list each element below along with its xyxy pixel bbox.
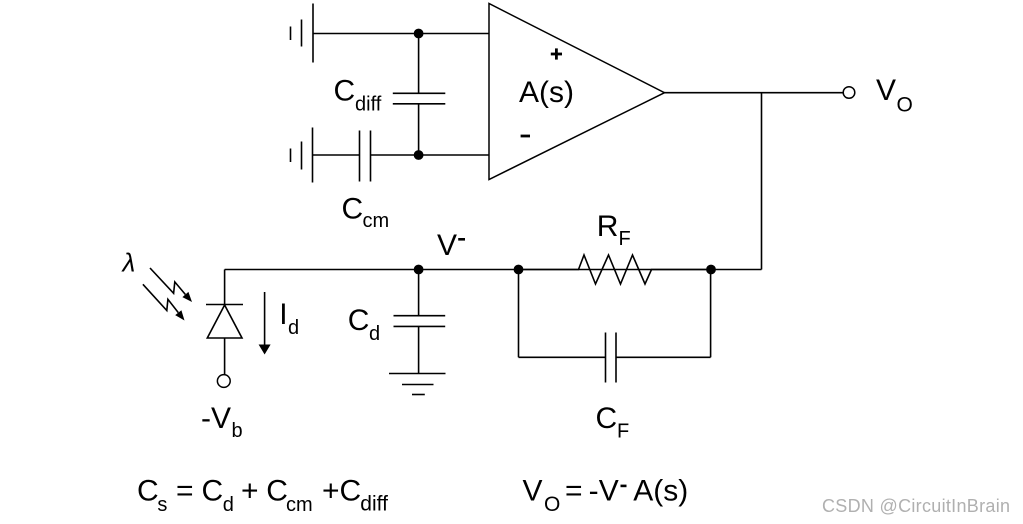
svg-text:=: = — [176, 475, 194, 508]
svg-text:C: C — [596, 402, 618, 435]
equation Cs = Cd + Ccm + Cdiff — [137, 475, 388, 517]
ground (below Cd) — [389, 374, 446, 395]
svg-text:V: V — [876, 74, 896, 107]
bias terminal circle — [217, 375, 230, 388]
svg-text:R: R — [597, 210, 619, 243]
wire: middle ground to Ccm — [313, 154, 360, 156]
wire: C_F loop left vertical — [518, 270, 520, 358]
wire: inverting input rail V- — [225, 269, 762, 271]
svg-text:+: + — [241, 475, 259, 508]
wire: top ground to op-amp + input — [313, 33, 489, 35]
svg-text:O: O — [897, 94, 913, 117]
wire: V- node down to Cd — [418, 270, 420, 316]
svg-text:diff: diff — [360, 493, 388, 516]
svg-text:A(s): A(s) — [633, 475, 688, 508]
op-amp U1 A(s) triangle — [489, 4, 665, 180]
node junction dot (bottom input) — [414, 150, 424, 160]
svg-text:I: I — [279, 298, 287, 331]
capacitor Cdiff — [393, 93, 446, 104]
node junction dot feedback right — [706, 265, 716, 275]
svg-text:s: s — [157, 494, 167, 516]
svg-text:C: C — [137, 475, 159, 508]
wire: photodiode top stub — [224, 270, 226, 305]
wire: op-amp output — [664, 92, 843, 94]
svg-text:cm: cm — [286, 494, 313, 516]
wire: C_F loop bottom left — [519, 356, 606, 358]
svg-text:C: C — [340, 475, 362, 508]
wire: Ccm to op-amp - input — [371, 154, 490, 156]
svg-text:d: d — [288, 317, 299, 339]
op-amp + input marker — [551, 48, 562, 59]
svg-text:d: d — [223, 494, 234, 516]
svg-text:A(s): A(s) — [519, 76, 574, 109]
node junction dot feedback left — [514, 265, 524, 275]
label V- superscript minus — [458, 238, 465, 241]
node junction dot (top input) — [414, 29, 424, 39]
svg-text:+: + — [322, 475, 340, 508]
svg-text:CSDN @CircuitInBrain: CSDN @CircuitInBrain — [822, 496, 1010, 516]
svg-text:V: V — [437, 229, 457, 262]
svg-text:C: C — [334, 75, 356, 108]
capacitor Ccm (series, vertical plates) — [360, 131, 371, 182]
op-amp - input marker — [521, 135, 530, 138]
output terminal circle — [843, 87, 855, 99]
wire: node down to Cdiff top plate — [418, 34, 420, 94]
svg-text:b: b — [232, 420, 243, 442]
svg-text:O: O — [544, 493, 560, 516]
svg-text:F: F — [619, 228, 631, 250]
svg-text:C: C — [202, 475, 224, 508]
svg-text:F: F — [617, 421, 629, 443]
photodiode D1 triangle — [207, 305, 242, 338]
svg-text:=: = — [565, 475, 583, 508]
svg-text:d: d — [369, 323, 380, 345]
photon arrow 2 — [143, 284, 185, 320]
svg-text:C: C — [342, 193, 364, 226]
capacitor Cd — [394, 316, 446, 327]
resistor RF — [519, 255, 712, 284]
svg-text:V: V — [523, 475, 543, 508]
svg-text:-V: -V — [201, 402, 231, 435]
svg-text:V: V — [599, 475, 619, 508]
wire: C_F loop bottom right — [616, 356, 711, 358]
wire: Cd down to ground — [418, 326, 420, 373]
svg-text:diff: diff — [355, 94, 382, 116]
current arrow Id — [259, 292, 271, 355]
wire: feedback branch vertical from output — [761, 93, 763, 270]
ground (top-left, rotated) — [291, 4, 314, 63]
photon arrow 1 — [150, 268, 192, 302]
svg-text:C: C — [348, 304, 370, 337]
wire: C_F loop right vertical — [710, 270, 712, 358]
node junction dot V- — [414, 265, 424, 275]
svg-text:λ: λ — [121, 248, 136, 278]
wire: photodiode anode to terminal — [224, 338, 226, 375]
watermark CSDN @CircuitInBrain — [822, 496, 1011, 517]
wire: Cdiff bottom plate down to lower node — [418, 104, 420, 155]
svg-text:-: - — [589, 475, 599, 508]
equation VO = -V- A(s) — [523, 475, 689, 517]
capacitor CF (vertical plates) — [606, 333, 617, 383]
svg-text:C: C — [266, 475, 288, 508]
photodiode D1 cathode bar — [206, 304, 243, 306]
svg-text:cm: cm — [363, 210, 390, 232]
ground (middle-left, rotated) — [291, 128, 313, 183]
